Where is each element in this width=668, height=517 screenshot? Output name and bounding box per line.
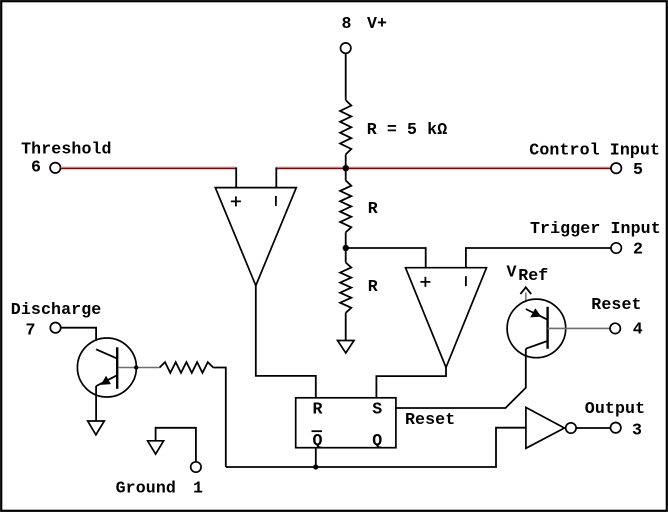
wire base resistor to bottom bus [213, 368, 226, 468]
comp2 plus mark [420, 277, 430, 287]
wire comp1 -in lead [275, 167, 277, 187]
svg-text:V: V [507, 263, 517, 282]
wire ground1 [156, 428, 196, 462]
svg-text:Ground: Ground [116, 479, 176, 498]
svg-text:R: R [368, 199, 378, 218]
Q1 collector diagonal [96, 349, 117, 358]
ground arrow (pin1) [148, 441, 164, 454]
svg-text:Q: Q [372, 431, 382, 450]
svg-text:5: 5 [633, 160, 643, 179]
op-amp comparator 1 (threshold) [215, 188, 296, 286]
terminal pin 2 [611, 243, 621, 253]
wire bubble to pin3 [576, 427, 611, 429]
wire trigger line to comp2 -in [466, 248, 611, 268]
Q2 emitter lead [525, 293, 527, 310]
terminal pin 7 [50, 323, 60, 333]
inverter bubble [566, 423, 576, 433]
resistor R3 zigzag [340, 263, 351, 313]
wire bottom bus to inverter [226, 428, 526, 467]
wire Qbar output [315, 448, 317, 467]
svg-text:V+: V+ [367, 14, 387, 33]
node dot base/circle [134, 365, 138, 369]
wire control red segment [276, 166, 611, 168]
transistor Q1 (discharge NPN) circle [77, 338, 136, 397]
wire comp1 +in lead [235, 167, 237, 187]
transistor Q2 (reset PNP) circle [507, 299, 566, 358]
svg-text:7: 7 [26, 320, 36, 339]
inverter output buffer [526, 407, 565, 448]
wire R2 to junction 2 [345, 232, 347, 262]
node junction divider/control [343, 165, 349, 171]
svg-text:2: 2 [633, 240, 643, 259]
wire junction2 to comp2 +in [346, 248, 426, 268]
terminal pin 1 [191, 462, 201, 472]
terminal pin 8 [341, 43, 351, 53]
Q2 collector lead [525, 349, 527, 358]
wire comp1 output to R input [256, 286, 316, 398]
Q1 emitter lead [95, 386, 97, 421]
Q1 emitter diagonal with arrow [96, 375, 117, 386]
VRef up arrow [520, 287, 531, 294]
wire R3 to ground [345, 313, 347, 341]
Q2 emitter diagonal with arrow [526, 309, 547, 319]
flip-flop box [296, 398, 396, 448]
svg-text:Control Input: Control Input [529, 141, 660, 160]
svg-text:6: 6 [31, 158, 41, 177]
wire V+ lead [345, 53, 347, 100]
svg-text:Trigger Input: Trigger Input [530, 219, 661, 238]
comp2 minus mark [465, 276, 467, 286]
svg-text:Reset: Reset [591, 295, 641, 314]
resistor R1 5k zigzag [340, 100, 351, 154]
svg-text:4: 4 [633, 320, 643, 339]
wire comp2 output to S input [376, 368, 446, 398]
wire threshold red segment [61, 166, 237, 168]
svg-text:S: S [372, 400, 382, 419]
wire pin7 to Q1 collector [61, 328, 96, 350]
svg-text:Reset: Reset [405, 410, 455, 429]
wire R1 to junction [345, 154, 347, 180]
svg-text:3: 3 [632, 420, 642, 439]
comp1 minus mark [275, 196, 277, 206]
svg-text:8: 8 [342, 14, 352, 33]
svg-text:Q: Q [313, 431, 323, 450]
ground arrow (divider) [338, 341, 355, 354]
Q2 base bar [546, 307, 548, 349]
ground arrow (Q1 emitter) [88, 421, 105, 435]
resistor base zigzag [160, 362, 214, 373]
Q1 base bar [116, 347, 118, 389]
svg-text:R: R [368, 277, 378, 296]
Q2 collector diagonal [526, 341, 547, 349]
svg-text:Discharge: Discharge [11, 300, 102, 319]
terminal pin 4 [610, 323, 620, 333]
Q1 base wire [118, 367, 159, 369]
svg-text:Ref: Ref [518, 266, 548, 285]
svg-text:R = 5 kΩ: R = 5 kΩ [367, 120, 447, 139]
comp1 plus mark [231, 196, 241, 206]
node junction Qbar/bottom wire [313, 464, 318, 469]
Q2 base wire to pin 4 [548, 327, 611, 329]
terminal pin 5 [611, 163, 621, 173]
node junction divider/trigger [343, 245, 349, 251]
terminal pin 6 [50, 163, 60, 173]
svg-text:Output: Output [585, 399, 645, 418]
svg-text:Threshold: Threshold [21, 139, 112, 158]
op-amp comparator 2 (trigger) [406, 268, 487, 368]
resistor R2 zigzag [340, 181, 351, 233]
wire reset: ff to pnp collector [396, 358, 526, 408]
svg-text:1: 1 [193, 479, 203, 498]
terminal pin 3 [611, 423, 621, 433]
svg-text:R: R [313, 400, 323, 419]
